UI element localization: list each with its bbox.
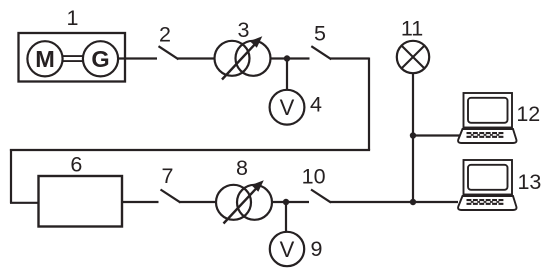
wire junction to voltmeter 4	[286, 59, 288, 91]
wire junction to computer 12	[413, 134, 460, 136]
wire G to switch 2	[118, 57, 157, 59]
switch 10	[311, 190, 331, 203]
wire into box 6	[10, 202, 39, 204]
wire return horizontal	[10, 149, 370, 151]
node junction right lower	[410, 199, 416, 205]
switch 5	[311, 46, 331, 59]
computer 13	[458, 160, 516, 210]
svg-text:12: 12	[516, 102, 540, 126]
motor M	[27, 41, 62, 76]
node junction top	[284, 55, 290, 61]
variable transformer 8	[216, 180, 272, 223]
svg-text:8: 8	[236, 156, 248, 180]
lamp 11	[397, 41, 429, 73]
voltmeter V9	[270, 232, 304, 266]
node junction right upper	[410, 132, 416, 138]
svg-text:13: 13	[517, 170, 541, 194]
device box 6	[39, 176, 123, 227]
node junction bottom-left	[283, 199, 289, 205]
wire transformer 3 to switch 5	[270, 57, 310, 59]
wire switch 7 to transformer 8	[180, 201, 217, 203]
variable transformer 3	[215, 36, 271, 79]
wire junction to voltmeter 9	[285, 202, 287, 233]
switch 2	[159, 46, 179, 59]
svg-text:4: 4	[310, 93, 322, 117]
svg-text:5: 5	[314, 22, 326, 46]
wire switch 2 to transformer 3	[178, 57, 216, 59]
svg-text:7: 7	[162, 164, 174, 188]
wire switch 5 to corner	[330, 57, 369, 59]
motor-generator set box 1	[19, 33, 126, 82]
wire right vertical down	[368, 58, 370, 151]
switch 7	[161, 190, 181, 203]
voltmeter V4	[270, 90, 305, 125]
shaft coupling	[63, 56, 83, 61]
wire lamp down to bottom junction	[412, 73, 414, 202]
svg-text:2: 2	[159, 23, 171, 47]
svg-text:1: 1	[67, 6, 79, 30]
wire left vertical down	[10, 149, 12, 203]
svg-text:3: 3	[238, 18, 250, 42]
wire switch 10 to right junction	[330, 201, 414, 203]
svg-text:10: 10	[302, 165, 326, 189]
svg-text:11: 11	[401, 17, 423, 41]
wire junction to computer 13	[413, 201, 458, 203]
computer 12	[458, 93, 516, 143]
svg-text:V: V	[280, 95, 295, 120]
svg-text:G: G	[91, 46, 109, 72]
svg-text:9: 9	[311, 237, 323, 261]
wire box 6 to switch 7	[122, 201, 159, 203]
generator G	[83, 41, 118, 76]
wire transformer 8 to switch 10	[272, 201, 310, 203]
svg-text:V: V	[280, 237, 295, 262]
svg-text:M: M	[35, 46, 55, 72]
svg-text:6: 6	[70, 153, 82, 177]
